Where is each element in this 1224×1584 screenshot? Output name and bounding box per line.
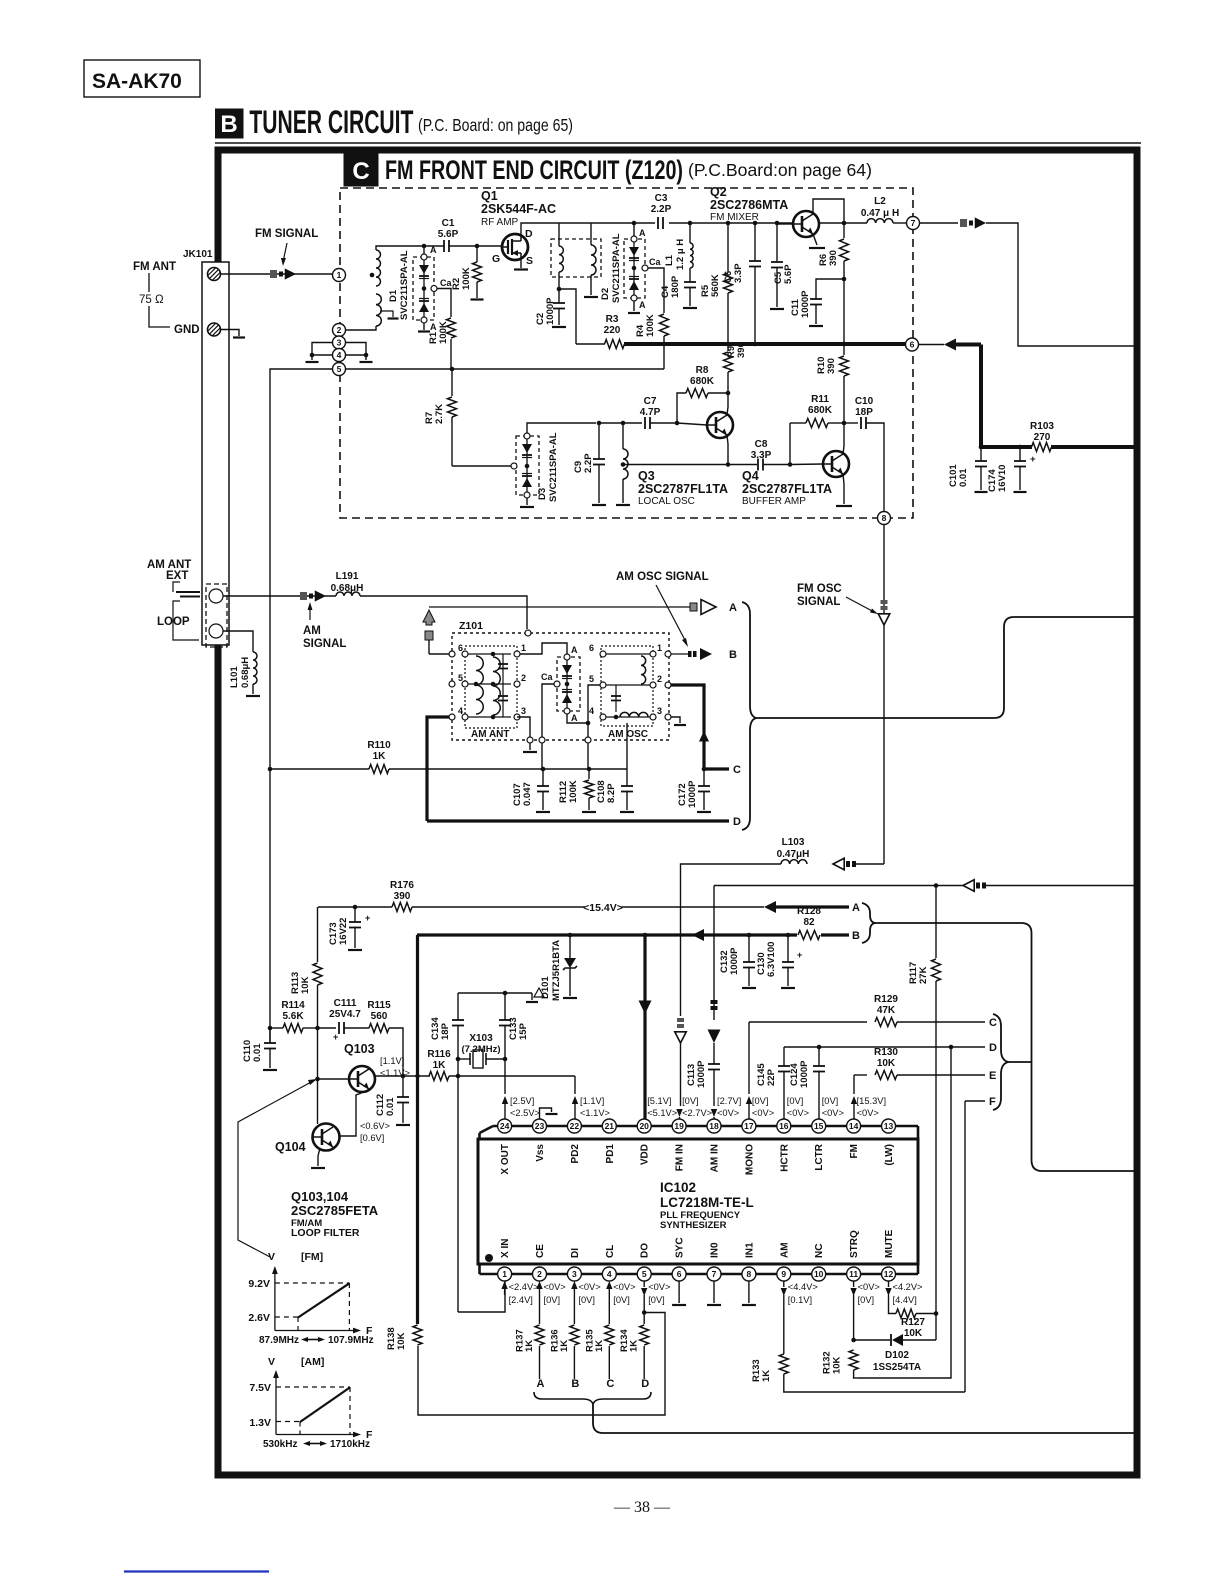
- inductor L2: [844, 222, 867, 224]
- svg-text:(P.C. Board: on page 65): (P.C. Board: on page 65): [418, 115, 573, 135]
- svg-text:2SC2787FL1TA: 2SC2787FL1TA: [742, 482, 832, 496]
- terminal AM LOOP: [209, 624, 223, 638]
- svg-text:FM OSC: FM OSC: [797, 583, 842, 595]
- VDD thick column: [643, 935, 646, 1119]
- svg-text:TUNER CIRCUIT: TUNER CIRCUIT: [249, 104, 413, 140]
- svg-text:AM OSC: AM OSC: [608, 729, 648, 740]
- terminal 3: [333, 336, 346, 349]
- FM IN marker arrow: [677, 1018, 684, 1022]
- svg-text:270: 270: [1034, 432, 1051, 443]
- bottom pin arrows: [501, 1281, 507, 1289]
- blue reference line: [124, 1570, 269, 1572]
- svg-text:6: 6: [589, 643, 594, 653]
- svg-text:C3: C3: [655, 193, 668, 204]
- svg-text:R129: R129: [874, 994, 898, 1005]
- transistor Q4 buffer amp: [823, 451, 849, 477]
- svg-text:3: 3: [572, 1269, 577, 1279]
- svg-text:4: 4: [458, 706, 463, 716]
- svg-text:22: 22: [570, 1121, 580, 1131]
- wire from 6 with arrow: [919, 344, 945, 346]
- svg-text:MUTE: MUTE: [884, 1229, 895, 1258]
- svg-text:10: 10: [814, 1269, 824, 1279]
- wire GND to ground: [221, 330, 239, 337]
- svg-text:1K: 1K: [373, 751, 387, 762]
- terminal 2: [333, 324, 346, 337]
- svg-text:2SC2787FL1TA: 2SC2787FL1TA: [638, 482, 728, 496]
- ground right of pins: [360, 361, 373, 363]
- wire Q3 collector: [727, 393, 728, 415]
- capacitor C108: [626, 769, 628, 786]
- pin 19 FM IN: [672, 1119, 686, 1133]
- svg-text:17: 17: [744, 1121, 754, 1131]
- svg-text:D102: D102: [885, 1350, 909, 1361]
- svg-text:19: 19: [674, 1121, 684, 1131]
- resistor R127: [889, 1295, 897, 1314]
- AM ANT tuning caps: [502, 654, 504, 717]
- svg-text:B: B: [571, 1378, 579, 1390]
- svg-text:15P: 15P: [518, 1022, 529, 1040]
- svg-text:R3: R3: [606, 314, 619, 325]
- svg-text:2.2P: 2.2P: [583, 453, 594, 473]
- svg-text:5.6P: 5.6P: [783, 264, 794, 284]
- svg-text:1: 1: [657, 643, 662, 653]
- svg-text:DO: DO: [640, 1243, 651, 1258]
- capacitor C132: [748, 935, 750, 962]
- A feed arrow: [764, 901, 776, 913]
- svg-text:PD1: PD1: [605, 1144, 616, 1164]
- pin 15 LCTR: [812, 1119, 826, 1133]
- node C2 top: [557, 287, 562, 292]
- wire varactor to C line: [587, 723, 589, 737]
- svg-text:+: +: [1030, 454, 1036, 465]
- capacitor C5: [775, 221, 780, 226]
- svg-text:1000P: 1000P: [799, 1060, 810, 1088]
- wire Ca down: [542, 684, 554, 737]
- capacitor C113: [713, 1043, 715, 1064]
- svg-text:FM ANT: FM ANT: [133, 261, 176, 273]
- wire D1 top lead: [423, 246, 425, 254]
- AM OSC terminals: [600, 651, 606, 657]
- svg-text:B: B: [729, 649, 737, 661]
- AM group brace: [742, 602, 756, 830]
- terminal 7: [907, 217, 920, 230]
- varactor D1 diodes: [421, 254, 427, 260]
- svg-text:D101: D101: [540, 976, 551, 999]
- ABCD brace: [534, 1392, 651, 1404]
- terminal 1: [333, 269, 346, 282]
- svg-text:[2.5V]: [2.5V]: [510, 1096, 534, 1106]
- svg-text:R110: R110: [367, 740, 391, 751]
- F line: [965, 1100, 985, 1102]
- svg-text:X103: X103: [469, 1033, 493, 1044]
- svg-text:Q104: Q104: [275, 1140, 306, 1154]
- svg-text:R115: R115: [367, 1000, 391, 1011]
- svg-text:21: 21: [605, 1121, 615, 1131]
- svg-text:22P: 22P: [766, 1068, 777, 1086]
- resistor R2: [476, 246, 478, 262]
- svg-text:C: C: [352, 158, 369, 185]
- pin 24 X OUT: [498, 1119, 512, 1133]
- svg-text:<0V>: <0V>: [717, 1108, 739, 1118]
- AM OSC bottom coil: [620, 712, 648, 717]
- pin 13 (LW): [882, 1119, 896, 1133]
- svg-text:FM SIGNAL: FM SIGNAL: [255, 228, 318, 240]
- varactor Ca block dashed box: [557, 657, 580, 711]
- svg-text:Ca: Ca: [541, 672, 553, 682]
- wire Q1 source ground: [520, 260, 522, 268]
- svg-text:6: 6: [458, 643, 463, 653]
- svg-text:IC102: IC102: [660, 1180, 696, 1195]
- svg-text:[2.7V]: [2.7V]: [717, 1096, 741, 1106]
- terminal GND: [208, 323, 221, 336]
- svg-text:S: S: [526, 255, 533, 267]
- svg-text:1: 1: [521, 643, 526, 653]
- capacitor C10: [844, 422, 858, 424]
- svg-text:VDD: VDD: [640, 1144, 651, 1165]
- capacitor C145: [783, 1047, 785, 1066]
- svg-text:LC7218M-TE-L: LC7218M-TE-L: [660, 1195, 754, 1210]
- svg-text:3.3P: 3.3P: [733, 263, 744, 283]
- svg-text:4: 4: [607, 1269, 612, 1279]
- svg-text:220: 220: [604, 325, 621, 336]
- svg-text:C: C: [989, 1017, 997, 1029]
- zener D101: [569, 935, 571, 958]
- heading underline: [215, 142, 1141, 144]
- X103 column to pin1: [457, 1059, 459, 1312]
- svg-text:5: 5: [642, 1269, 647, 1279]
- svg-text:6: 6: [677, 1269, 682, 1279]
- svg-text:530kHz: 530kHz: [263, 1439, 297, 1450]
- svg-text:SVC211SPA-AL: SVC211SPA-AL: [548, 432, 559, 502]
- svg-text:R8: R8: [696, 365, 709, 376]
- connector JK101 body: [202, 262, 229, 645]
- resistor R130: [875, 1071, 897, 1080]
- svg-text:C: C: [606, 1378, 614, 1390]
- svg-text:10K: 10K: [877, 1058, 896, 1069]
- svg-text:0.01: 0.01: [385, 1097, 396, 1116]
- capacitor C4: [689, 268, 691, 282]
- svg-text:D: D: [525, 228, 533, 240]
- svg-text:<0V>: <0V>: [752, 1108, 774, 1118]
- svg-text:CL: CL: [605, 1245, 616, 1258]
- wire Q4 collector: [843, 423, 844, 454]
- svg-text:[4.4V]: [4.4V]: [893, 1295, 917, 1305]
- svg-text:Q103,104: Q103,104: [291, 1189, 349, 1204]
- inductor L103: [781, 860, 807, 864]
- wire terminal8 down: [883, 525, 885, 865]
- svg-text:NC: NC: [814, 1244, 825, 1258]
- svg-text:2: 2: [537, 1269, 542, 1279]
- node D1 top: [422, 244, 427, 249]
- transistor Q1 2SK544F-AC: [502, 234, 528, 260]
- svg-text:2.6V: 2.6V: [248, 1312, 270, 1324]
- transformer T2 dashed box: [551, 239, 601, 277]
- svg-text:18: 18: [709, 1121, 719, 1131]
- resistor R8: [677, 393, 686, 423]
- D line thick: [427, 819, 729, 822]
- svg-text:SIGNAL: SIGNAL: [797, 596, 840, 608]
- svg-text:<5.1V>: <5.1V>: [647, 1108, 677, 1118]
- varactor D1 dashed box: [413, 257, 434, 320]
- svg-text:D: D: [989, 1042, 997, 1054]
- svg-text:47K: 47K: [877, 1005, 896, 1016]
- svg-text:R127: R127: [901, 1317, 925, 1328]
- AM osc signal line A: [429, 606, 690, 608]
- wire Q2 emitter ground: [813, 234, 817, 245]
- svg-text:390: 390: [736, 342, 747, 358]
- pin 7 IN0: [707, 1267, 721, 1281]
- resistor R117: [935, 886, 937, 959]
- svg-text:R176: R176: [390, 880, 414, 891]
- svg-text:1710kHz: 1710kHz: [330, 1439, 370, 1450]
- osc emitter line: [623, 464, 757, 466]
- CDEF brace cusp link: [1008, 1061, 1032, 1063]
- svg-text:5: 5: [458, 673, 463, 683]
- B line arrow: [692, 929, 704, 941]
- svg-text:B: B: [852, 930, 860, 942]
- svg-text:[1.1V]: [1.1V]: [380, 1056, 404, 1066]
- svg-text:87.9MHz: 87.9MHz: [259, 1335, 299, 1346]
- B supply line: [417, 933, 849, 936]
- AM SIGNAL pointer: [309, 606, 311, 620]
- wire L191 to Z101 pin1: [360, 596, 527, 629]
- wire D1 bottom ground lead: [423, 323, 425, 330]
- svg-text:390: 390: [394, 891, 411, 902]
- svg-text:R103: R103: [1030, 421, 1054, 432]
- svg-text:5: 5: [337, 364, 342, 374]
- svg-text:1.2 μ H: 1.2 μ H: [675, 239, 686, 270]
- wire gate Q1: [477, 245, 502, 247]
- AM bundle wire to border: [756, 617, 1136, 718]
- svg-text:FM FRONT END CIRCUIT (Z120): FM FRONT END CIRCUIT (Z120): [385, 155, 683, 185]
- resistor R134: [643, 1295, 645, 1324]
- svg-text:C8: C8: [755, 439, 768, 450]
- svg-text:10K: 10K: [396, 1332, 407, 1350]
- svg-text:C7: C7: [644, 396, 657, 407]
- FM SIGNAL pointer arrow: [283, 243, 287, 262]
- B line from AM OSC pin1: [671, 653, 688, 655]
- svg-text:82: 82: [803, 917, 815, 928]
- svg-text:R116: R116: [427, 1049, 451, 1060]
- grounds pins 6 7 8: [678, 1281, 680, 1303]
- svg-text:8: 8: [882, 513, 887, 523]
- T2 left winding: [558, 223, 560, 246]
- svg-text:23: 23: [535, 1121, 545, 1131]
- pin 3 DI: [567, 1267, 581, 1281]
- svg-text:9: 9: [781, 1269, 786, 1279]
- B column thick: [416, 935, 419, 1324]
- wire R115 to collector node: [389, 1028, 403, 1076]
- antenna impedance bracket: [149, 273, 170, 327]
- A line tap arrow: [423, 610, 435, 625]
- wire pin6 to A tap: [429, 653, 449, 655]
- svg-text:1000P: 1000P: [696, 1060, 707, 1088]
- svg-text:[0V]: [0V]: [858, 1295, 875, 1305]
- resistor R1: [447, 318, 456, 338]
- svg-text:C: C: [733, 764, 741, 776]
- wire C8 to Q4 base: [790, 463, 823, 466]
- section label B: [216, 109, 244, 138]
- label 75 ohm: [136, 292, 166, 306]
- svg-text:R11: R11: [811, 394, 829, 405]
- svg-text:0.68μH: 0.68μH: [331, 583, 364, 594]
- resistor R132: [853, 1295, 855, 1340]
- resistor R136: [573, 1295, 575, 1324]
- svg-text:2.7K: 2.7K: [434, 404, 445, 424]
- capacitor C111: [338, 1022, 340, 1034]
- node R10 C10: [842, 421, 847, 426]
- pin 20 VDD: [637, 1119, 651, 1133]
- svg-text:[0.6V]: [0.6V]: [360, 1133, 384, 1143]
- AM OSC SIGNAL pointer: [656, 585, 686, 642]
- resistor R138: [413, 1325, 422, 1345]
- svg-text:X OUT: X OUT: [500, 1144, 511, 1175]
- svg-text:F: F: [989, 1096, 996, 1108]
- svg-text:JK101: JK101: [183, 249, 213, 260]
- wire AM LOOP to L101: [223, 631, 253, 652]
- svg-text:FM IN: FM IN: [675, 1144, 686, 1171]
- svg-text:2: 2: [657, 674, 662, 684]
- svg-text:+: +: [333, 1032, 338, 1042]
- wire pin2 to transformer T1: [346, 326, 377, 330]
- resistor R137: [539, 1295, 541, 1324]
- svg-text:27K: 27K: [918, 966, 929, 984]
- svg-text:(LW): (LW): [884, 1144, 895, 1166]
- ground R2: [471, 298, 484, 300]
- connector JK101 AM dashed section: [206, 584, 227, 647]
- svg-text:1: 1: [502, 1269, 507, 1279]
- svg-text:180P: 180P: [670, 275, 681, 298]
- DO branch node: [642, 1310, 647, 1315]
- resistor R6: [840, 239, 849, 261]
- svg-text:3.3P: 3.3P: [751, 450, 772, 461]
- capacitor C11: [816, 279, 844, 299]
- svg-text:D: D: [733, 816, 741, 828]
- resistor R135: [608, 1295, 610, 1324]
- svg-text:CE: CE: [535, 1244, 546, 1258]
- capacitor C133: [504, 993, 506, 1020]
- svg-text:A: A: [430, 245, 437, 255]
- resistor R7: [450, 367, 455, 372]
- svg-text:Q1: Q1: [481, 189, 498, 203]
- svg-text:(P.C.Board:on page 64): (P.C.Board:on page 64): [688, 160, 872, 180]
- svg-text:5.6P: 5.6P: [438, 229, 459, 240]
- svg-text:SYC: SYC: [675, 1237, 686, 1258]
- wire L103 to FM IN column: [681, 864, 782, 1016]
- FM OSC marker arrow: [881, 600, 888, 604]
- pin 17 MONO: [742, 1119, 756, 1133]
- svg-text:R130: R130: [874, 1047, 898, 1058]
- resistor R9: [727, 344, 729, 351]
- AM OSC windings: [606, 653, 650, 655]
- AM OSC cap: [615, 685, 617, 712]
- svg-text:+: +: [797, 950, 802, 960]
- wire Q103 collector node: [375, 1075, 430, 1077]
- svg-text:+: +: [365, 913, 370, 923]
- svg-text:RF AMP: RF AMP: [481, 217, 519, 228]
- thick wire down to supply rail: [979, 345, 983, 448]
- AB brace: [862, 903, 876, 943]
- pin23 Vss ground: [540, 1108, 552, 1119]
- svg-text:BUFFER AMP: BUFFER AMP: [742, 496, 806, 507]
- svg-text:[0V]: [0V]: [613, 1295, 630, 1305]
- resistor R116: [429, 1072, 449, 1081]
- wire Ca to R1: [437, 289, 451, 318]
- svg-text:[1.1V]: [1.1V]: [580, 1096, 604, 1106]
- svg-text:16: 16: [779, 1121, 789, 1131]
- inductor L1: [688, 221, 693, 226]
- wire bus to pin5 line: [663, 344, 665, 369]
- main border: [218, 150, 1137, 1475]
- wire to AM OSC pin5: [588, 685, 600, 723]
- svg-text:MTZJ5R1BTA: MTZJ5R1BTA: [551, 940, 562, 1001]
- svg-text:AM OSC SIGNAL: AM OSC SIGNAL: [616, 571, 709, 583]
- svg-text:SVC211SPA-AL: SVC211SPA-AL: [611, 233, 622, 303]
- svg-text:<4.2V>: <4.2V>: [893, 1282, 923, 1292]
- pin 23 Vss: [533, 1119, 547, 1133]
- pin 12 MUTE: [882, 1267, 896, 1281]
- svg-text:PD2: PD2: [570, 1144, 581, 1164]
- resistor R3: [576, 343, 605, 345]
- svg-text:L1: L1: [664, 254, 675, 266]
- svg-text:V: V: [268, 1356, 275, 1368]
- wire FM ANT to pin1: [221, 273, 332, 275]
- AM ANT windings: [468, 653, 511, 655]
- svg-text:AM ANT: AM ANT: [471, 729, 510, 740]
- resistor R110: [270, 768, 369, 770]
- wire Q103 emitter to Q104: [339, 1090, 369, 1136]
- svg-text:R114: R114: [281, 1000, 305, 1011]
- crystal X103: [456, 1057, 461, 1062]
- svg-text:[0V]: [0V]: [544, 1295, 561, 1305]
- svg-text:A: A: [852, 902, 860, 914]
- terminal AM EXT: [209, 589, 223, 603]
- wire pin5 column down: [270, 369, 333, 1043]
- supply line 15.4V: [318, 906, 392, 908]
- svg-text:<0V>: <0V>: [648, 1282, 670, 1292]
- svg-text:9.2V: 9.2V: [248, 1278, 270, 1290]
- pin 21 PD1: [602, 1119, 616, 1133]
- transistor Q3 local osc: [677, 423, 707, 425]
- wire C108 top to AM OSC: [626, 723, 628, 769]
- pin 14 FM: [847, 1119, 861, 1133]
- pin 16 HCTR: [777, 1119, 791, 1133]
- wire AM OSC pin3 ground: [671, 717, 680, 723]
- IC pin1 mark: [485, 1254, 493, 1262]
- svg-text:[5.1V]: [5.1V]: [647, 1096, 671, 1106]
- wire pin7 to border: [986, 223, 1136, 346]
- A line arrow: [701, 600, 716, 615]
- wire R6 to bus: [843, 279, 845, 344]
- svg-text:107.9MHz: 107.9MHz: [328, 1335, 374, 1346]
- svg-text:A: A: [571, 645, 578, 655]
- base column: [317, 1028, 319, 1124]
- svg-text:<0V>: <0V>: [857, 1108, 879, 1118]
- wire D2 ground: [633, 301, 635, 311]
- svg-text:A: A: [571, 713, 578, 723]
- wire to L103: [853, 863, 884, 865]
- varactor D3 dashed box: [516, 436, 539, 495]
- svg-text:Q3: Q3: [638, 469, 655, 483]
- svg-text:L191: L191: [336, 571, 359, 582]
- pin 4 CL: [602, 1267, 616, 1281]
- svg-text:560K: 560K: [710, 274, 721, 297]
- svg-text:8: 8: [747, 1269, 752, 1279]
- svg-text:AM: AM: [779, 1242, 790, 1258]
- terminal 8: [878, 512, 891, 525]
- transistor Q103: [349, 1066, 375, 1092]
- svg-text:EXT: EXT: [166, 570, 188, 582]
